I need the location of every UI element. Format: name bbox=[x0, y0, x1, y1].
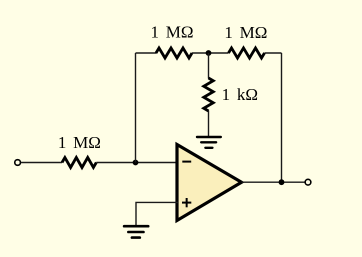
wire node B down to R4 bbox=[208, 53, 210, 79]
input terminal bbox=[15, 160, 21, 166]
pin label minus bbox=[182, 161, 191, 163]
wire top middle segment bbox=[192, 52, 229, 54]
wire R4 to ground bbox=[208, 111, 210, 138]
svg-text:1 MΩ: 1 MΩ bbox=[151, 22, 194, 41]
node B (top junction) bbox=[206, 50, 212, 56]
wire input to R1 bbox=[21, 162, 62, 164]
wire output bbox=[242, 181, 305, 183]
ground G1 (below R4) bbox=[197, 137, 221, 148]
svg-text:1 kΩ: 1 kΩ bbox=[222, 85, 258, 104]
svg-text:1 MΩ: 1 MΩ bbox=[58, 133, 101, 152]
resistor R1 1 MΩ (input) bbox=[62, 158, 96, 168]
output terminal bbox=[305, 179, 311, 185]
svg-text:1 MΩ: 1 MΩ bbox=[224, 23, 267, 42]
resistor R3 1 MΩ (feedback right) bbox=[229, 48, 265, 58]
pin label plus bbox=[182, 198, 191, 207]
wire R1 to inverting node bbox=[96, 162, 178, 164]
wire feedback left vertical bbox=[135, 53, 137, 163]
op-amp U1 bbox=[177, 145, 242, 221]
resistor R2 1 MΩ (feedback left) bbox=[156, 48, 192, 58]
resistor R4 1 kΩ bbox=[204, 78, 214, 111]
node C (output junction) bbox=[279, 179, 285, 185]
node A (inverting input junction) bbox=[133, 160, 139, 166]
wire feedback right vertical bbox=[281, 53, 283, 182]
ground G2 (noninverting input) bbox=[124, 226, 148, 237]
wire plus input to ground bbox=[136, 202, 178, 226]
wire top right segment bbox=[265, 52, 282, 54]
wire top left segment bbox=[136, 52, 157, 54]
